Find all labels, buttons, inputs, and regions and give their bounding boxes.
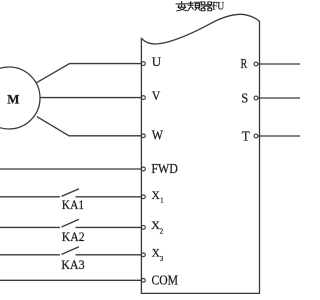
terminal COM — [142, 278, 146, 282]
char 频 — [190, 2, 192, 8]
terminal U — [142, 62, 146, 66]
terminal FWD — [142, 167, 146, 171]
svg-text:1: 1 — [160, 197, 163, 204]
terminal R — [254, 62, 258, 66]
char 器 — [201, 2, 205, 5]
svg-text:KA3: KA3 — [61, 257, 84, 272]
wire FWD — [0, 168, 142, 170]
wire X2 left segment — [0, 226, 60, 228]
wire W (motor to W terminal) — [37, 117, 142, 136]
wire X3 left segment — [0, 254, 60, 256]
wire X1 left segment — [0, 196, 60, 198]
terminal V — [142, 96, 146, 100]
switch KA2 blade — [62, 219, 80, 227]
svg-text:U: U — [152, 54, 162, 69]
svg-text:FU: FU — [212, 1, 225, 13]
wire U (motor to U terminal) — [36, 64, 141, 83]
terminal T — [254, 134, 258, 138]
wire R (to right edge) — [258, 63, 300, 65]
svg-text:FWD: FWD — [151, 161, 178, 176]
svg-text:3: 3 — [160, 256, 164, 263]
motor M circle — [0, 67, 40, 129]
terminal X1 — [142, 195, 146, 199]
svg-text:KA2: KA2 — [62, 229, 85, 244]
wire T (to right edge) — [258, 135, 300, 137]
svg-text:S: S — [241, 90, 248, 105]
svg-text:R: R — [241, 56, 248, 71]
terminal X2 — [142, 226, 146, 230]
wire X2 right segment — [76, 226, 142, 228]
terminal X3 — [142, 253, 146, 257]
switch KA1 blade — [62, 189, 80, 197]
svg-text:T: T — [242, 129, 250, 144]
wire V (motor to V terminal) — [41, 97, 142, 99]
svg-text:W: W — [152, 127, 164, 142]
svg-text:X: X — [152, 188, 161, 202]
wire COM — [0, 279, 142, 281]
char 变 — [181, 1, 183, 2]
inverter box FU (wavy-top frame) — [141, 14, 259, 293]
svg-text:X: X — [152, 246, 160, 260]
terminal W — [142, 134, 146, 138]
svg-text:M: M — [7, 92, 19, 107]
svg-text:COM: COM — [152, 273, 179, 288]
wire X3 right segment — [76, 254, 142, 256]
svg-text:V: V — [152, 89, 160, 103]
switch KA3 blade — [62, 247, 80, 255]
svg-text:KA1: KA1 — [62, 197, 84, 212]
label 变频器FU — [176, 1, 212, 10]
terminal S — [254, 96, 258, 100]
wire X1 right segment — [76, 196, 142, 198]
svg-text:2: 2 — [160, 228, 164, 235]
wire S (to right edge) — [258, 97, 300, 99]
